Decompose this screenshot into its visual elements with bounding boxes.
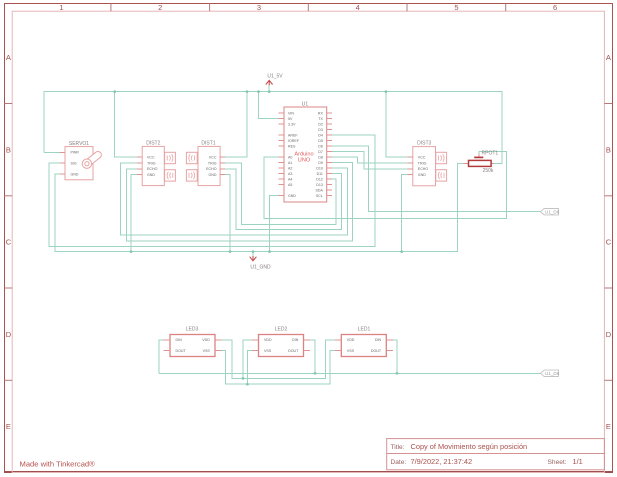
wire U1 A0 to RPOT1 wiper xyxy=(264,151,506,218)
svg-text:1: 1 xyxy=(59,3,63,12)
neopixel LED2 xyxy=(252,326,310,356)
svg-text:D: D xyxy=(606,330,612,339)
junction DIST1 VCC on 5V bus xyxy=(246,90,249,93)
svg-text:RES: RES xyxy=(288,144,296,148)
svg-text:VSS: VSS xyxy=(203,349,211,353)
svg-text:VDD: VDD xyxy=(202,338,210,342)
svg-text:6: 6 xyxy=(553,3,557,12)
wire U1 GND pin to GND bus xyxy=(270,196,279,252)
svg-text:VDD: VDD xyxy=(264,338,272,342)
svg-text:7/9/2022, 21:37:42: 7/9/2022, 21:37:42 xyxy=(411,457,473,466)
svg-text:SCL: SCL xyxy=(316,194,323,198)
svg-text:VDD: VDD xyxy=(347,338,355,342)
wire servo SIG to U1 D4 xyxy=(49,135,375,246)
svg-text:DIN: DIN xyxy=(176,338,183,342)
wire DIST1 GND to GND bus xyxy=(225,175,230,252)
svg-text:A2: A2 xyxy=(288,166,292,170)
junction DIST1 GND on GND bus xyxy=(229,250,232,253)
wire U1 D7 to DIST3 ECHO xyxy=(332,152,407,169)
svg-text:GND: GND xyxy=(288,194,296,198)
wire LED data line to net flag U1_D6 xyxy=(159,372,541,374)
svg-text:250k: 250k xyxy=(483,168,494,174)
svg-text:3: 3 xyxy=(257,3,261,12)
svg-text:D: D xyxy=(6,330,12,339)
wire DIST1 ECHO to U1 D11 xyxy=(225,169,342,230)
svg-text:DOUT: DOUT xyxy=(288,349,299,353)
wire DIST2 VCC to 5V bus xyxy=(115,92,137,157)
svg-text:Sheet:: Sheet: xyxy=(548,459,567,466)
wire U1 5V pin to 5V bus xyxy=(259,92,279,119)
ground flag U1_GND xyxy=(250,256,271,271)
svg-text:TRIG: TRIG xyxy=(418,161,427,165)
svg-text:RPOT1: RPOT1 xyxy=(482,151,499,157)
wire DIST1 TRIG to U1 D12 xyxy=(225,163,336,224)
wire LED VDD bus xyxy=(222,340,335,379)
svg-text:TRIG: TRIG xyxy=(147,161,156,165)
wire DIST2 GND to GND bus xyxy=(131,175,137,252)
svg-text:UNO: UNO xyxy=(298,158,311,164)
svg-text:A3: A3 xyxy=(288,172,292,176)
wire DIST3 VCC to 5V bus xyxy=(386,92,408,158)
svg-text:TRIG: TRIG xyxy=(208,161,217,165)
svg-text:3.3V: 3.3V xyxy=(288,122,296,126)
junction DIST3 VCC on 5V bus xyxy=(385,90,388,93)
svg-text:A5: A5 xyxy=(288,183,292,187)
frame row letters left xyxy=(6,53,12,431)
wire LED2 VSS tap xyxy=(247,350,252,384)
svg-text:D3: D3 xyxy=(318,128,323,132)
svg-text:U1_D6: U1_D6 xyxy=(545,371,560,376)
svg-text:Arduino: Arduino xyxy=(294,151,313,157)
svg-text:DIST1: DIST1 xyxy=(201,141,215,147)
ultrasonic sensor DIST2 xyxy=(137,141,175,186)
svg-text:A1: A1 xyxy=(288,161,292,165)
svg-text:ECHO: ECHO xyxy=(206,167,217,171)
junction DIST2 GND on GND bus xyxy=(130,250,133,253)
svg-text:Made with Tinkercad®: Made with Tinkercad® xyxy=(20,460,96,469)
junction DIST3 GND on GND bus xyxy=(400,250,403,253)
svg-text:GND: GND xyxy=(147,173,155,177)
wire U1 D8 to DIST3 TRIG xyxy=(332,157,407,163)
svg-text:D11: D11 xyxy=(317,172,323,176)
junction DIST2 VCC on 5V bus xyxy=(113,90,116,93)
svg-text:E: E xyxy=(606,422,611,431)
svg-text:U1_5V: U1_5V xyxy=(267,74,283,80)
svg-text:U1: U1 xyxy=(302,101,309,107)
net flag U1_D6 lower xyxy=(541,370,560,376)
svg-text:PWR: PWR xyxy=(71,151,80,155)
frame row ticks xyxy=(5,104,613,381)
servo SERVO1 xyxy=(60,141,103,180)
title block xyxy=(387,439,605,470)
svg-text:DIST2: DIST2 xyxy=(146,141,160,147)
svg-text:AREF: AREF xyxy=(288,133,298,137)
wire LED1 DIN tap xyxy=(393,340,397,374)
svg-text:B: B xyxy=(6,145,11,154)
junction LED2 VDD on VDD bus xyxy=(242,377,245,380)
svg-text:D12: D12 xyxy=(316,177,323,181)
svg-text:GND: GND xyxy=(71,172,79,176)
svg-text:D10: D10 xyxy=(316,166,323,170)
svg-text:Title:: Title: xyxy=(391,444,405,451)
junction U1_GND flag on GND bus xyxy=(252,250,255,253)
svg-text:D5: D5 xyxy=(318,139,323,143)
svg-text:A: A xyxy=(606,53,611,62)
svg-text:A: A xyxy=(6,53,11,62)
wire LED2 VDD tap xyxy=(243,340,252,379)
junction LED2 DIN on data line xyxy=(314,372,317,375)
svg-text:LED3: LED3 xyxy=(186,326,199,332)
svg-text:DOUT: DOUT xyxy=(371,349,382,353)
junction U1 5V pin on 5V bus xyxy=(257,90,260,93)
svg-text:TX: TX xyxy=(318,117,323,121)
svg-text:ECHO: ECHO xyxy=(418,167,429,171)
wire DIST2 TRIG to U1 D10 xyxy=(121,163,348,235)
frame row letters right xyxy=(606,53,612,431)
svg-text:B: B xyxy=(606,145,611,154)
wire 5V bus xyxy=(44,92,502,164)
wire DIST3 GND to GND bus xyxy=(402,175,408,252)
wire DIST2 ECHO to U1 D9 xyxy=(127,163,353,242)
ultrasonic sensor DIST3 xyxy=(408,141,447,186)
neopixel LED3 xyxy=(163,326,221,356)
svg-text:VCC: VCC xyxy=(418,156,426,160)
svg-text:SIG: SIG xyxy=(71,161,77,165)
frame column ticks xyxy=(111,4,506,12)
svg-text:SERVO1: SERVO1 xyxy=(69,141,89,147)
arduino U1 xyxy=(278,101,332,202)
svg-text:VSS: VSS xyxy=(347,349,355,353)
svg-text:SDA: SDA xyxy=(316,188,324,192)
svg-text:A0: A0 xyxy=(288,155,292,159)
svg-text:DOUT: DOUT xyxy=(176,349,187,353)
wire U1_5V flag tap xyxy=(268,85,270,91)
svg-text:LED1: LED1 xyxy=(358,326,371,332)
net flag U1_D6 upper xyxy=(541,209,560,215)
svg-text:C: C xyxy=(606,238,612,247)
wire LED3 DIN drop xyxy=(159,340,164,374)
potentiometer RPOT1 xyxy=(464,151,499,174)
svg-text:VSS: VSS xyxy=(264,349,272,353)
U1 left pin stubs xyxy=(278,112,284,114)
svg-text:GND: GND xyxy=(418,173,426,177)
wire U1_GND flag tap xyxy=(252,252,254,256)
wire servo PWR to 5V bus xyxy=(44,151,60,153)
svg-text:ECHO: ECHO xyxy=(147,167,158,171)
junction LED2 VSS on VSS bus xyxy=(246,383,249,386)
svg-text:U1_GND: U1_GND xyxy=(250,265,271,271)
svg-text:IOREF: IOREF xyxy=(288,139,300,143)
svg-text:D8: D8 xyxy=(318,155,323,159)
svg-text:D9: D9 xyxy=(318,161,323,165)
neopixel LED1 xyxy=(335,326,393,356)
wire LED VSS bus xyxy=(222,350,335,384)
svg-text:VIN: VIN xyxy=(288,111,294,115)
junction U1 GND pin on GND bus xyxy=(268,250,271,253)
wire DIST1 VCC to 5V bus xyxy=(225,92,247,157)
svg-text:C: C xyxy=(6,238,12,247)
svg-text:Date:: Date: xyxy=(391,459,407,466)
ultrasonic sensor DIST1 xyxy=(186,141,225,186)
junction LED1 DIN on data line xyxy=(396,372,399,375)
wire U1 D6 to net flag U1_D6 xyxy=(332,146,540,212)
svg-text:D7: D7 xyxy=(318,150,323,154)
svg-text:Copy of Movimiento según posic: Copy of Movimiento según posición xyxy=(411,442,528,451)
svg-text:VCC: VCC xyxy=(209,155,217,159)
svg-text:5V: 5V xyxy=(288,117,293,121)
svg-text:DIST3: DIST3 xyxy=(417,141,431,147)
wire GND bus servo GND to RPOT1 left xyxy=(55,163,464,251)
svg-text:VCC: VCC xyxy=(147,155,155,159)
svg-text:D6: D6 xyxy=(318,144,323,148)
power flag U1_5V xyxy=(266,74,284,86)
wire LED2 DIN tap xyxy=(310,340,315,374)
svg-text:D13: D13 xyxy=(316,183,323,187)
svg-text:RX: RX xyxy=(318,111,324,115)
junction U1_5V flag on 5V bus xyxy=(268,90,271,93)
svg-text:DIN: DIN xyxy=(292,338,299,342)
svg-text:1/1: 1/1 xyxy=(573,457,583,466)
svg-text:GND: GND xyxy=(209,173,217,177)
svg-text:U1_D6: U1_D6 xyxy=(545,210,560,215)
svg-text:D4: D4 xyxy=(318,133,323,137)
svg-text:2: 2 xyxy=(158,3,162,12)
svg-text:4: 4 xyxy=(356,3,360,12)
svg-text:E: E xyxy=(6,422,11,431)
U1 right pin stubs xyxy=(327,112,333,114)
frame column numbers xyxy=(59,3,557,12)
svg-text:5: 5 xyxy=(454,3,458,12)
svg-text:D2: D2 xyxy=(318,122,323,126)
svg-text:A4: A4 xyxy=(288,177,292,181)
svg-text:LED2: LED2 xyxy=(275,326,288,332)
svg-text:DIN: DIN xyxy=(375,338,382,342)
